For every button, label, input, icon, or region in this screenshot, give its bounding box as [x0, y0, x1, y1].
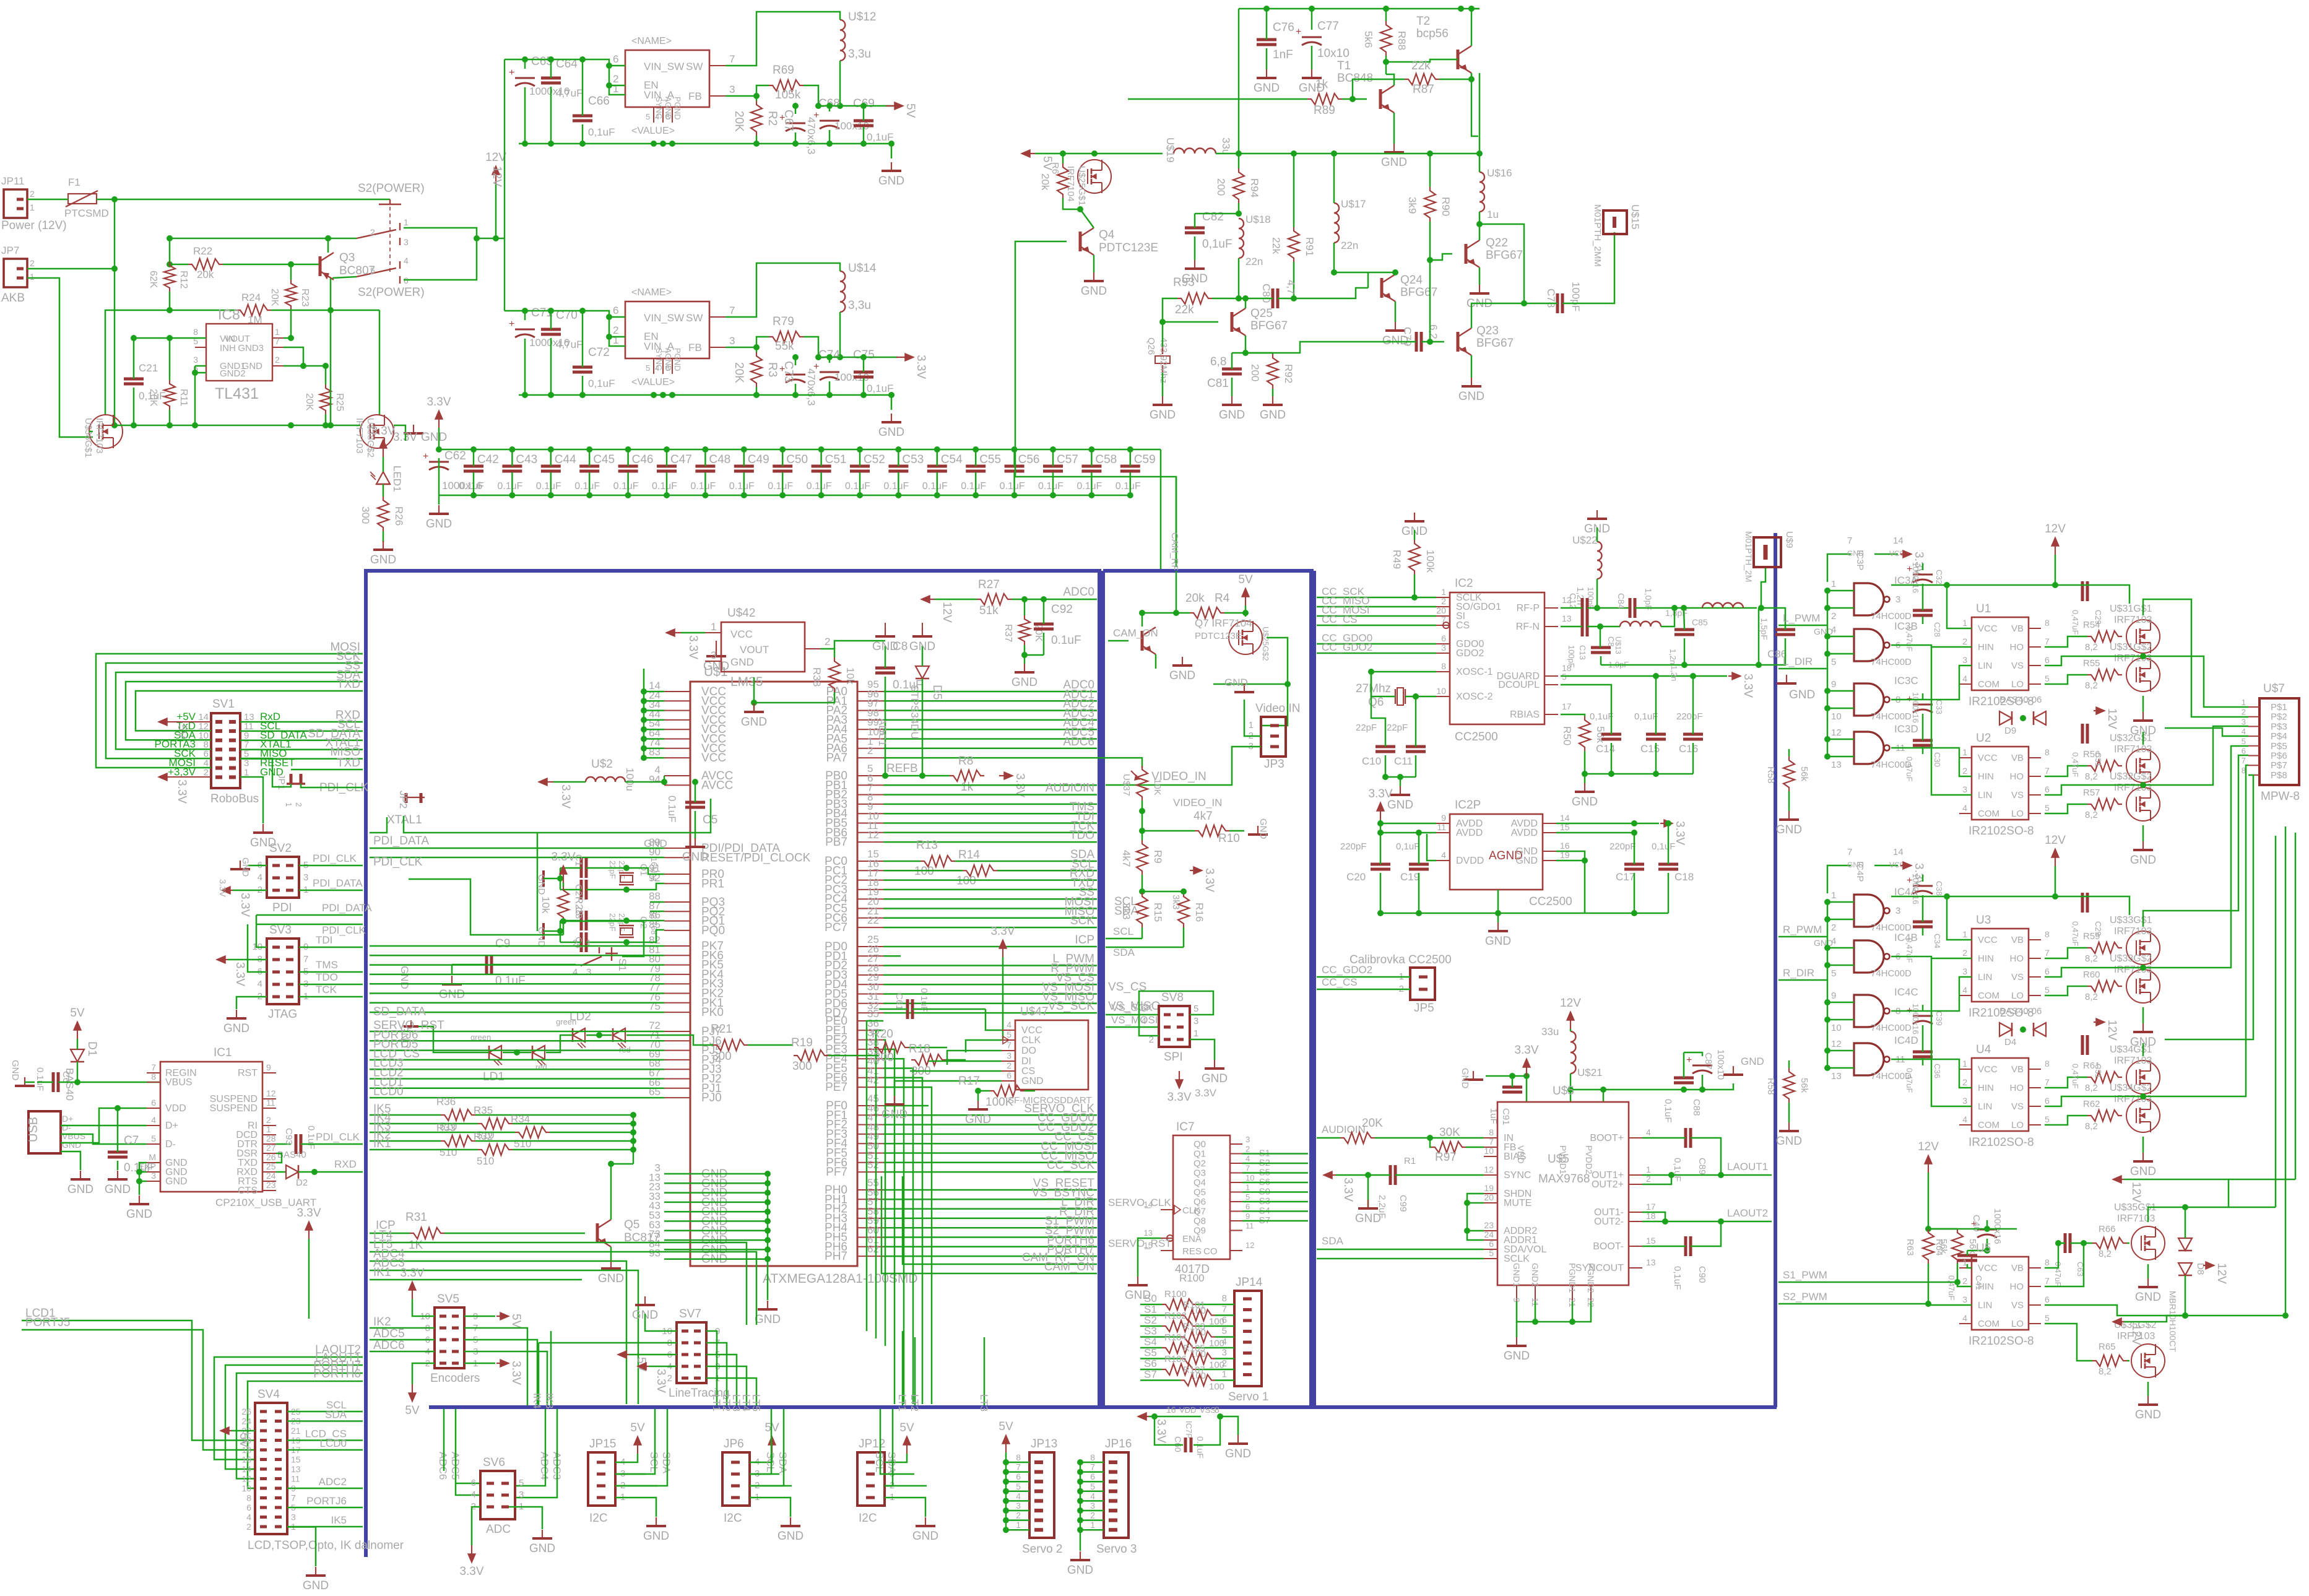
wire buck 1 ground rail	[519, 394, 891, 396]
IC IC1 CP210X_USB_UART	[160, 1062, 262, 1192]
svg-text:C88: C88	[1691, 1099, 1702, 1116]
svg-text:C10: C10	[1362, 755, 1381, 767]
svg-text:LAOUT2: LAOUT2	[1727, 1207, 1768, 1219]
nand gate IC3D 74HC00D	[1854, 732, 1884, 764]
mosfet U$25G$1 IRF7104	[1078, 160, 1111, 193]
transistor Q25 BFG67	[1231, 312, 1234, 332]
svg-text:5: 5	[2045, 674, 2050, 683]
svg-text:S7: S7	[1144, 1369, 1157, 1381]
wire CC nets	[1317, 597, 1436, 599]
ground Q5	[610, 1260, 612, 1269]
svg-text:TXD: TXD	[337, 678, 360, 691]
capacitor C88 0,1uF	[1674, 1077, 1694, 1080]
svg-text:10k: 10k	[844, 667, 856, 685]
svg-text:3.3V: 3.3V	[1514, 1044, 1538, 1057]
mcu pin PH4 pin 59	[857, 1227, 883, 1228]
svg-text:220pF: 220pF	[1609, 841, 1636, 852]
wire antenna	[1761, 567, 1765, 608]
svg-text:ADC: ADC	[486, 1523, 511, 1536]
svg-text:11: 11	[1437, 822, 1446, 832]
svg-text:R12: R12	[178, 271, 189, 288]
svg-text:TXD: TXD	[337, 757, 360, 770]
transistor Q CAM_ON	[1141, 631, 1144, 651]
svg-text:L_DIR: L_DIR	[1783, 656, 1813, 667]
svg-text:+: +	[1296, 27, 1301, 37]
svg-text:12V: 12V	[2105, 708, 2118, 729]
capacitor C71 1000x16	[515, 329, 535, 331]
svg-text:P$5: P$5	[2271, 741, 2287, 752]
svg-text:CC_CS: CC_CS	[1322, 614, 1358, 625]
svg-text:R9: R9	[1152, 850, 1164, 864]
resistor R79	[769, 331, 804, 342]
svg-text:R10: R10	[1218, 832, 1240, 845]
resistor R63 56k	[1923, 1229, 1934, 1264]
mcu pin PF5 pin 50	[857, 1153, 883, 1154]
mosfet U$38G$2 IRF7103	[360, 415, 394, 448]
capacitor C1 22pF	[580, 858, 583, 878]
svg-text:5: 5	[2242, 737, 2246, 746]
svg-text:2: 2	[573, 938, 578, 948]
ground LED1	[383, 541, 384, 550]
svg-text:0,1uF: 0,1uF	[1663, 1099, 1673, 1122]
wire JP16 pin 3	[1080, 1510, 1104, 1512]
svg-text:4: 4	[1962, 985, 1967, 995]
wire SV5 right to bottom	[464, 1328, 527, 1405]
wire VIDEO_IN	[1106, 747, 1261, 785]
svg-text:6: 6	[1489, 1239, 1494, 1249]
svg-text:6: 6	[1090, 1472, 1095, 1481]
capacitor C61 0.1uF	[906, 999, 909, 1019]
svg-text:HIN: HIN	[1978, 1282, 1994, 1292]
IC IC2 CC2500	[1450, 592, 1544, 724]
IC7 pin Q2	[1230, 1163, 1242, 1164]
capacitor C49 0.1uF	[734, 465, 754, 468]
svg-text:MUTE: MUTE	[1504, 1198, 1531, 1208]
svg-text:74HC00D: 74HC00D	[1871, 1023, 1912, 1033]
svg-text:BFG67: BFG67	[1486, 249, 1523, 262]
svg-text:C56: C56	[1018, 453, 1040, 466]
mcu pin GND 73	[664, 1239, 690, 1241]
svg-text:LO: LO	[2011, 679, 2024, 690]
svg-text:SYNC: SYNC	[1504, 1170, 1531, 1181]
svg-text:+: +	[509, 67, 514, 78]
svg-text:3: 3	[729, 84, 735, 95]
svg-text:12V: 12V	[1560, 997, 1581, 1010]
svg-text:3.3V: 3.3V	[1167, 1091, 1191, 1104]
svg-text:0,47uF: 0,47uF	[2071, 1064, 2080, 1089]
mcu pin PH5 pin 60	[857, 1237, 883, 1238]
svg-text:IRF7103: IRF7103	[2114, 653, 2152, 664]
IC7 pin Q4	[1230, 1182, 1242, 1183]
svg-text:3: 3	[1222, 1348, 1227, 1358]
wire SV7 right nets LT	[706, 1331, 717, 1405]
svg-text:14: 14	[1893, 536, 1904, 546]
blue section frame right edge A	[1098, 571, 1101, 1407]
IC8 TL431	[206, 324, 272, 381]
svg-text:GND: GND	[1814, 938, 1833, 948]
svg-text:22k: 22k	[1175, 303, 1194, 316]
capacitor C83 1,0pF	[1591, 646, 1611, 649]
svg-text:GND2: GND2	[1530, 1263, 1540, 1287]
svg-text:JTAG: JTAG	[268, 1008, 297, 1021]
svg-text:Servo 3: Servo 3	[1096, 1543, 1137, 1556]
capacitor C44 0.1uF	[541, 465, 561, 468]
svg-text:1k: 1k	[961, 781, 974, 794]
svg-text:0,47uF: 0,47uF	[1905, 1068, 1914, 1093]
svg-text:C51: C51	[825, 453, 847, 466]
svg-text:CAM_ON: CAM_ON	[1044, 1260, 1094, 1273]
inductor RF L1	[1620, 622, 1661, 627]
svg-text:RF-P: RF-P	[1517, 603, 1540, 614]
capacitor C43 0.1uF	[502, 465, 522, 468]
svg-text:R105: R105	[1183, 1343, 1205, 1354]
capacitor C5 0.1uF	[685, 801, 705, 804]
svg-text:TMS: TMS	[316, 959, 338, 971]
svg-text:REFB: REFB	[886, 762, 918, 775]
diode D4 BAS40-06	[1999, 1023, 2012, 1036]
resistor R11 20k	[164, 380, 175, 410]
svg-text:P$7: P$7	[2271, 760, 2287, 771]
mcu pin PB7 pin 12	[857, 841, 883, 843]
svg-text:3: 3	[519, 1490, 524, 1500]
wire F1 junction down	[114, 199, 116, 425]
svg-text:GND: GND	[598, 1272, 624, 1285]
inductor U$16 1u	[1479, 172, 1484, 212]
svg-text:12V: 12V	[2045, 834, 2066, 847]
svg-text:6: 6	[1245, 1202, 1250, 1212]
inductor U$22 1,2n	[1597, 542, 1602, 579]
svg-text:IC1: IC1	[214, 1046, 232, 1059]
resistor R16 3k3	[1178, 893, 1189, 927]
svg-text:56k: 56k	[1799, 1078, 1809, 1093]
mosfet U$34G$1 IRF7103	[2126, 1060, 2160, 1094]
resistor R87 22k	[1405, 74, 1439, 85]
svg-text:11: 11	[291, 1474, 300, 1484]
nand gate IC3B 74HC00D	[1854, 629, 1884, 661]
wire SCK SV1	[106, 663, 363, 758]
wire base Q4 long	[1015, 241, 1176, 567]
supply 12V small 1	[2094, 1021, 2103, 1023]
svg-text:C21: C21	[139, 362, 158, 374]
supply 3.3V arrow SV2	[223, 890, 233, 891]
svg-text:R103: R103	[1183, 1322, 1205, 1332]
wire JP13 pin 7	[1006, 1471, 1029, 1473]
svg-text:SW: SW	[686, 61, 703, 72]
svg-text:1: 1	[1831, 890, 1836, 901]
crystal Q26 433,92Mhz	[1162, 347, 1163, 354]
svg-text:10: 10	[1245, 1173, 1254, 1182]
jumper JP2	[404, 797, 425, 798]
gate IC3D input wires	[1827, 739, 1854, 740]
svg-text:PR1: PR1	[701, 877, 724, 890]
capacitor C37 0,47uF mid	[2081, 1035, 2084, 1055]
mosfet U$35G$1 IRF7103	[2131, 1226, 2165, 1260]
supply 3.3V arrow PD	[1002, 941, 1003, 957]
svg-text:SV8: SV8	[1161, 991, 1184, 1004]
svg-text:23: 23	[266, 1180, 276, 1190]
ground R37	[1024, 664, 1025, 672]
wire mcu bottom gnd	[767, 1174, 769, 1300]
svg-text:R88: R88	[1396, 31, 1408, 50]
capacitor C59 0.1uF	[1120, 465, 1140, 468]
svg-text:C20: C20	[1346, 871, 1366, 883]
svg-text:M: M	[149, 1152, 156, 1162]
svg-text:ICP: ICP	[1075, 934, 1094, 947]
svg-text:8: 8	[2045, 618, 2050, 628]
wire ENA gnd	[1138, 1238, 1161, 1277]
svg-text:1: 1	[1245, 1183, 1250, 1192]
svg-text:510: 510	[514, 1138, 531, 1150]
wire TL431 GND1 GND2	[195, 365, 206, 367]
supply 3.3V arrow R8	[999, 775, 1012, 776]
wire AKB pin1	[27, 278, 93, 437]
svg-text:VS: VS	[2011, 790, 2024, 800]
svg-text:5: 5	[646, 363, 650, 373]
mcu pin PJ7 72	[664, 1031, 690, 1032]
transistor Q23 BFG67	[1457, 332, 1460, 352]
svg-text:GND: GND	[1515, 856, 1538, 866]
svg-text:C66: C66	[588, 95, 610, 108]
wire JP13 pin 1	[1006, 1529, 1029, 1531]
wire cap bank bottom rail	[439, 495, 1130, 497]
svg-text:16Mhz: 16Mhz	[649, 857, 659, 882]
wire JP16 pin 8	[1080, 1462, 1104, 1464]
svg-text:7: 7	[729, 53, 735, 65]
svg-text:3.3V: 3.3V	[1341, 1177, 1354, 1202]
resistor R12 62k	[164, 262, 175, 292]
svg-text:C52: C52	[864, 453, 885, 466]
resistor R3 20k	[751, 352, 762, 387]
svg-text:GND1: GND1	[1512, 1263, 1522, 1287]
resistor R19 300	[794, 1050, 828, 1061]
svg-text:T2: T2	[1416, 15, 1430, 28]
svg-text:GND: GND	[912, 1530, 938, 1543]
svg-text:4017D: 4017D	[1175, 1263, 1210, 1276]
svg-text:JP14: JP14	[1236, 1276, 1263, 1289]
transistor T1 BC848	[1379, 89, 1382, 109]
gate IC4B input wires	[1827, 947, 1854, 949]
svg-text:U$7: U$7	[2263, 682, 2285, 695]
mcu pin PE7 pin 42	[857, 1086, 883, 1088]
svg-text:20K: 20K	[732, 362, 745, 383]
svg-text:SYNCOUT: SYNCOUT	[1575, 1263, 1624, 1273]
svg-text:1000x16: 1000x16	[1911, 692, 1920, 723]
svg-text:GND: GND	[741, 716, 767, 729]
supply 12V arrow audio	[1570, 1013, 1571, 1029]
svg-text:R54: R54	[2083, 620, 2100, 630]
svg-text:P$3: P$3	[2271, 721, 2287, 732]
inductor RF L2	[1702, 603, 1743, 608]
U$7 pin P$2	[2248, 716, 2259, 718]
inductor U$19 33u	[1174, 149, 1216, 154]
svg-text:PORTJ6: PORTJ6	[306, 1495, 347, 1507]
ground SV1	[240, 777, 263, 823]
svg-text:C84: C84	[1616, 593, 1626, 609]
svg-text:+: +	[1686, 1055, 1692, 1065]
mosfet U$38G$1 IRF7103	[89, 415, 123, 448]
svg-text:22pF: 22pF	[608, 861, 617, 879]
svg-text:3: 3	[2242, 717, 2246, 726]
svg-text:5: 5	[1831, 968, 1836, 979]
mcu pin PA2 pin 97	[857, 710, 883, 711]
svg-text:OUT2-: OUT2-	[1594, 1217, 1624, 1227]
resistor R97 30K	[1431, 1142, 1466, 1153]
svg-text:8,2: 8,2	[2099, 1249, 2112, 1259]
nand gate IC4C 74HC00D	[1854, 995, 1884, 1027]
svg-text:ADC0: ADC0	[1063, 586, 1094, 599]
wire ADC0 net	[883, 691, 1097, 693]
svg-text:R93: R93	[1173, 276, 1195, 289]
mcu pin RESET/PDI_CLOCK 90	[664, 857, 690, 858]
resistor R90 3k9	[1424, 187, 1436, 222]
svg-text:HIN: HIN	[1978, 642, 1994, 653]
svg-text:8: 8	[2045, 929, 2050, 939]
svg-text:S1: S1	[1144, 1304, 1157, 1316]
svg-text:R107: R107	[1183, 1365, 1205, 1376]
capacitor C6 0.1uF	[52, 1072, 55, 1092]
transistor Q24 BFG67	[1380, 278, 1384, 298]
connector SV8 SPI	[1159, 1006, 1190, 1047]
svg-text:IC2P: IC2P	[1455, 799, 1481, 812]
svg-text:P$8: P$8	[2271, 770, 2287, 781]
supply 5V arrow SV5 down	[412, 1384, 413, 1400]
connector SV1 RoboBus	[211, 713, 240, 788]
svg-text:56k: 56k	[1799, 766, 1809, 782]
ground R58 1	[1788, 1122, 1790, 1131]
ground U$35G$1	[2147, 1278, 2149, 1287]
svg-text:C38: C38	[1934, 881, 1944, 896]
mcu pin PD2 pin 27	[857, 965, 883, 966]
capacitor C70 4,7uF	[541, 328, 561, 331]
svg-text:2: 2	[1831, 611, 1836, 622]
svg-text:Q4: Q4	[1099, 228, 1115, 241]
wire hin lin 0	[1891, 645, 1972, 647]
svg-text:C15: C15	[1640, 743, 1660, 755]
wire ICP net PD0	[883, 946, 1097, 948]
svg-text:SCL: SCL	[765, 1452, 776, 1472]
svg-text:VCC: VCC	[730, 628, 753, 640]
wire PORTH6 net	[248, 1381, 363, 1488]
mcu pin PB0 pin 5	[857, 775, 883, 776]
resistor R38 10k	[829, 657, 840, 692]
wire PORTH6 net PH6	[883, 1246, 1097, 1248]
svg-text:470x6,3: 470x6,3	[805, 368, 817, 406]
svg-text:PDTC123E: PDTC123E	[1099, 241, 1158, 254]
supply 12V arrow R27	[922, 599, 935, 600]
capacitor pol 1000x16 block 1 1	[1913, 1015, 1933, 1017]
svg-text:8,2: 8,2	[2085, 953, 2098, 964]
diode D5 STPS340U	[916, 666, 929, 679]
wire JP2 scl sda	[885, 1473, 914, 1475]
svg-text:GND: GND	[529, 1542, 555, 1555]
svg-text:PDI_CLK: PDI_CLK	[322, 924, 366, 936]
connector JP11	[4, 189, 27, 218]
svg-text:IK1: IK1	[373, 1137, 391, 1150]
svg-text:4,7uF: 4,7uF	[556, 87, 583, 99]
svg-text:Servo 1: Servo 1	[1228, 1390, 1268, 1403]
resistor R13 100	[921, 856, 955, 867]
connector U$9 M01PTH 2MM	[1754, 537, 1781, 567]
capacitor C93 0.1uF	[276, 1143, 291, 1145]
wire VS_MISO net PD6	[883, 1003, 1097, 1005]
mcu pin PH2 pin 57	[857, 1208, 883, 1210]
svg-text:3.3V: 3.3V	[1203, 868, 1216, 892]
svg-text:3: 3	[1016, 1501, 1021, 1511]
svg-text:PORTJ5: PORTJ5	[25, 1316, 71, 1329]
wire mosfet drains 1	[2143, 911, 2165, 927]
svg-text:INH: INH	[220, 343, 236, 353]
mcu pin PC5 pin 20	[857, 908, 883, 909]
svg-text:VCC: VCC	[1978, 1263, 1998, 1273]
wire Q22 out	[1479, 224, 1524, 303]
ground R10	[1257, 826, 1258, 835]
svg-text:0.1uF: 0.1uF	[919, 988, 929, 1012]
IC7 pin Q6	[1230, 1201, 1242, 1202]
svg-text:10x10: 10x10	[1317, 47, 1349, 60]
ground C6	[24, 1077, 25, 1086]
diode D9 BAS40-06	[1999, 711, 2012, 725]
wire cam out	[1213, 638, 1288, 684]
svg-text:GND: GND	[242, 361, 263, 371]
IC7 pin Q7	[1230, 1211, 1242, 1212]
svg-text:P$4: P$4	[2271, 731, 2287, 742]
svg-text:IC4D: IC4D	[1894, 1034, 1918, 1046]
svg-text:HIN: HIN	[1978, 953, 1994, 964]
IC buck converter U$12 box	[625, 50, 709, 107]
IC U$1 ATXMEGA128A1-100SMD	[690, 682, 857, 1266]
mcu pin PJ1 66	[664, 1088, 690, 1089]
svg-text:GND: GND	[1741, 1056, 1764, 1067]
svg-text:2: 2	[204, 767, 209, 778]
svg-text:10: 10	[1831, 1023, 1842, 1033]
svg-text:JP16: JP16	[1105, 1438, 1132, 1451]
svg-text:C57: C57	[1057, 453, 1078, 466]
capacitor 0,47uF block 0 1	[1913, 739, 1933, 742]
svg-text:42: 42	[867, 1074, 879, 1086]
svg-text:GND: GND	[878, 175, 904, 188]
svg-text:2: 2	[294, 802, 303, 807]
mcu pin PA1 pin 96	[857, 700, 883, 701]
svg-text:1,2n: 1,2n	[1670, 666, 1679, 681]
mcu pin VCC 74	[664, 748, 690, 749]
mosfet U$31G$2 IRF7103	[2126, 658, 2160, 692]
svg-text:30K: 30K	[1439, 1126, 1460, 1139]
capacitor C9 0.1uF	[485, 955, 488, 974]
wire L_PWM net PD2	[883, 965, 1097, 966]
svg-text:COM: COM	[1978, 809, 1999, 819]
supply 3.3V gate IC3	[1900, 553, 1910, 555]
wire VS_MOSI net PD5	[883, 993, 1097, 995]
svg-text:6,8: 6,8	[1210, 355, 1226, 368]
svg-text:HO: HO	[2010, 1282, 2024, 1292]
svg-text:12V: 12V	[1918, 1140, 1939, 1153]
svg-text:12V: 12V	[2129, 1182, 2142, 1203]
mcu pin PD3 pin 28	[857, 974, 883, 976]
svg-text:R27: R27	[978, 578, 1000, 591]
svg-text:BC807: BC807	[339, 264, 375, 277]
svg-text:100u: 100u	[624, 768, 636, 791]
capacitor C13 100pF	[1581, 617, 1584, 636]
mcu pin VCC 14	[664, 691, 690, 692]
svg-text:12: 12	[241, 1474, 251, 1484]
supply 3.3V arrow audio	[1526, 1060, 1527, 1076]
svg-text:VS_MOSI: VS_MOSI	[1111, 1014, 1158, 1026]
svg-text:200: 200	[1249, 364, 1261, 381]
svg-text:GND: GND	[778, 1530, 804, 1543]
svg-text:12V: 12V	[2215, 1263, 2228, 1284]
transistor Q4 PDTC123E	[1079, 232, 1082, 251]
svg-text:2: 2	[1962, 636, 1967, 646]
